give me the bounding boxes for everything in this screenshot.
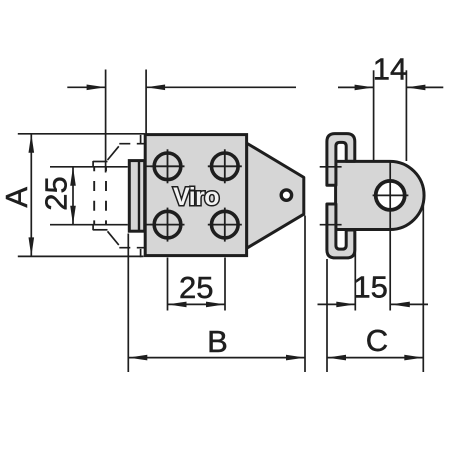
dimension B: label bbox=[207, 324, 228, 359]
dimension 25 bottom: dimension line with arrows bbox=[168, 302, 226, 308]
dimension 14: dimension line with outside arrows bbox=[338, 85, 443, 91]
dimension A: label bbox=[0, 187, 34, 208]
svg-text:25: 25 bbox=[38, 176, 73, 210]
side view hole bbox=[373, 181, 409, 210]
main square plate of front view bbox=[145, 135, 246, 256]
phantom staple: dashed vertical left leg bbox=[93, 167, 95, 225]
dimension C: extension lines bbox=[327, 198, 423, 372]
dimension 15: label bbox=[353, 270, 387, 305]
side view hole centerline vertical (to 15 dim) bbox=[389, 161, 391, 310]
dimension 25 vertical: label bbox=[38, 176, 73, 210]
dimension 15: dimension line with outside arrows bbox=[318, 302, 429, 308]
small hole in tab bbox=[281, 190, 291, 200]
dimension 25 vertical: dimension line with arrows bbox=[70, 167, 76, 225]
Viro logo bbox=[173, 183, 219, 211]
side view centerline tick bottom bbox=[320, 224, 342, 226]
dimension 25 bottom: label bbox=[179, 270, 213, 305]
top small dimension: extension lines bbox=[106, 70, 147, 173]
tab (triangular lug) of front view bbox=[247, 143, 304, 248]
dimension 14: extension lines bbox=[374, 70, 407, 161]
svg-text:25: 25 bbox=[179, 270, 213, 305]
hole top-left bbox=[151, 149, 185, 183]
dimension 15: extension line bbox=[354, 232, 356, 311]
svg-text:14: 14 bbox=[373, 52, 407, 87]
phantom staple: bottom step outline bbox=[93, 224, 144, 248]
dimension A: dimension line with arrows bbox=[29, 134, 35, 257]
svg-text:A: A bbox=[0, 187, 34, 208]
top clip (staple loop, side view) bbox=[327, 134, 355, 186]
hole bottom-left bbox=[151, 208, 185, 242]
svg-text:B: B bbox=[207, 324, 228, 359]
svg-text:C: C bbox=[366, 323, 388, 358]
dimension 25 bottom: extension lines bbox=[168, 258, 226, 311]
dimension B: extension lines bbox=[128, 216, 305, 373]
phantom staple: hidden vertical dashes at plate edge bbox=[140, 135, 142, 257]
top small dimension: dimension line with outside arrows bbox=[67, 85, 296, 91]
centerline top hole row (left extension) bbox=[50, 165, 152, 168]
staple plate (thin rect) left of body bbox=[129, 161, 144, 232]
side view body (lug with round end) bbox=[336, 161, 424, 229]
svg-text:Viro: Viro bbox=[173, 183, 219, 211]
centerline bottom hole row (left extension) bbox=[50, 224, 152, 226]
phantom staple: top step outline bbox=[93, 144, 144, 168]
svg-text:15: 15 bbox=[353, 270, 387, 305]
bottom clip (staple loop, side view) bbox=[327, 204, 355, 258]
dimension C: dimension line with arrows bbox=[327, 355, 423, 361]
side view centerline tick top bbox=[320, 166, 342, 168]
hole bottom-right bbox=[208, 208, 242, 242]
phantom staple: dashed vertical right leg bbox=[105, 167, 107, 225]
dimension A: extension lines bbox=[18, 134, 145, 257]
dimension B: dimension line with arrows bbox=[128, 355, 305, 361]
dimension C: label bbox=[366, 323, 388, 358]
dimension 14: label bbox=[373, 52, 407, 87]
hole top-right bbox=[208, 149, 242, 183]
